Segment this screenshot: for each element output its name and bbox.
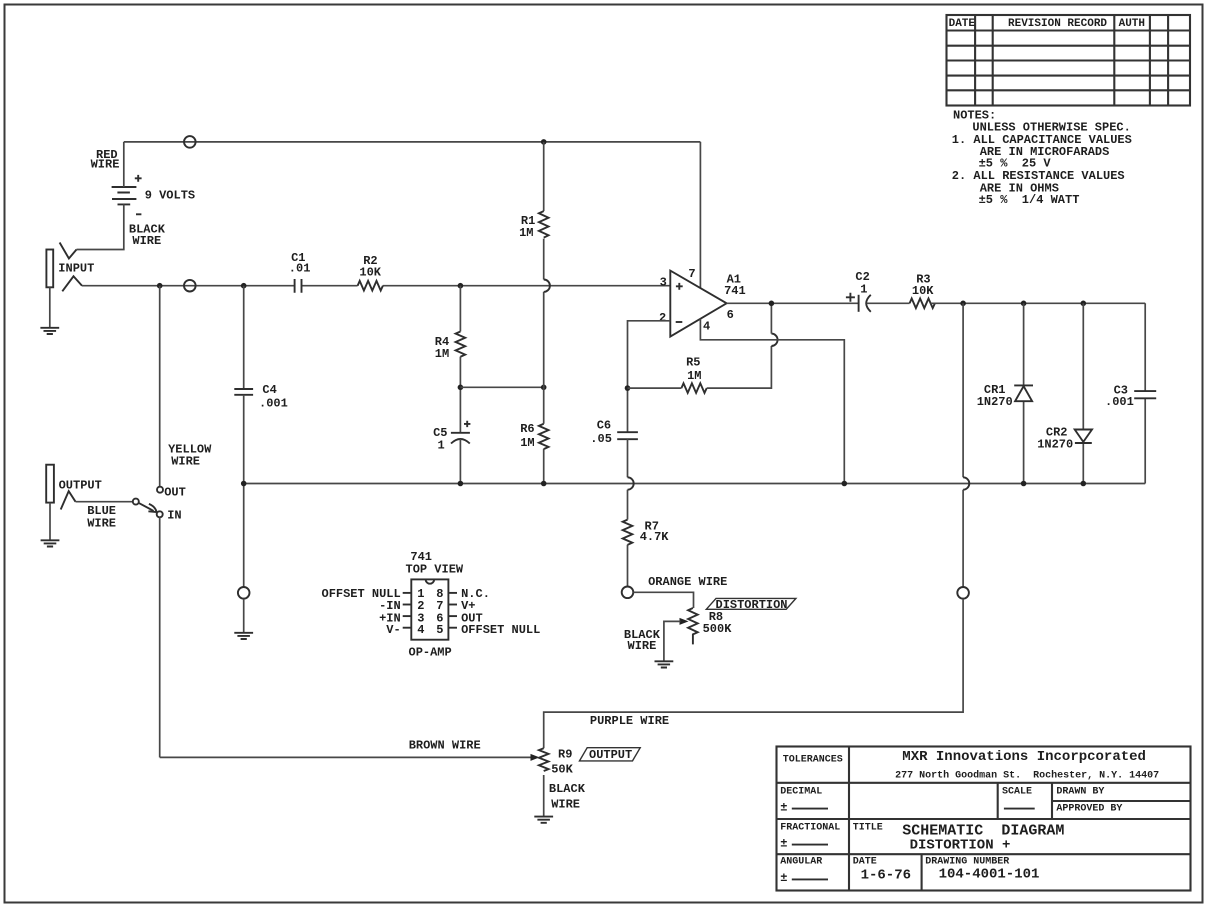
- wire pin4 to bus: [700, 319, 844, 484]
- svg-text:R9: R9: [558, 748, 572, 762]
- DIP pin labels right: [461, 587, 540, 637]
- wire +9V rail: [124, 141, 701, 143]
- DIP pin 3: [403, 615, 412, 617]
- svg-text:277 North Goodman St. Rochest: 277 North Goodman St. Rochester, N.Y. 14…: [895, 770, 1159, 782]
- svg-text:V-: V-: [386, 623, 400, 637]
- svg-text:±: ±: [780, 800, 787, 814]
- diode CR2 1N270: [1037, 425, 1092, 451]
- wire rail to R1: [543, 142, 545, 211]
- connector circle (input signal): [184, 280, 196, 292]
- R9 wiper arrowhead: [531, 754, 540, 761]
- resistor R6 1M: [520, 422, 548, 450]
- potentiometer R8 500K: [688, 608, 732, 644]
- op-amp A1 741 triangle: [670, 271, 745, 337]
- svg-text:1N270: 1N270: [977, 395, 1013, 409]
- svg-text:FRACTIONAL: FRACTIONAL: [780, 823, 840, 834]
- capacitor C5 1 (electrolytic): [433, 421, 470, 453]
- wire hop over bus: [628, 477, 634, 489]
- svg-text:OFFSET NULL: OFFSET NULL: [461, 623, 540, 637]
- wire input signal to op-amp pin3: [82, 285, 670, 287]
- DIP pin 5: [448, 627, 457, 629]
- wire purple: connector to R9 top: [544, 599, 963, 749]
- potentiometer R9 50K: [539, 748, 574, 777]
- svg-text:3: 3: [660, 276, 667, 290]
- svg-text:1M: 1M: [435, 347, 449, 361]
- wire blue: jack to switch pivot: [76, 501, 133, 503]
- node: bus left end: [241, 481, 247, 487]
- svg-text:500K: 500K: [703, 622, 733, 636]
- svg-text:INPUT: INPUT: [58, 262, 94, 276]
- wire switch IN down to brown wire: [159, 517, 161, 757]
- ground (left bus): [234, 633, 253, 639]
- switch contact OUT: [157, 487, 163, 493]
- svg-text:9 VOLTS: 9 VOLTS: [145, 189, 195, 203]
- svg-text:10K: 10K: [912, 284, 934, 298]
- wire feedback vertical to output: [770, 303, 772, 333]
- connector circle (orange wire): [622, 587, 634, 599]
- title block ANGULAR cell: [780, 857, 828, 885]
- capacitor C4 .001: [234, 383, 288, 411]
- svg-text:.01: .01: [289, 261, 311, 275]
- wire pin7 drop from rail: [699, 142, 701, 288]
- svg-text:6: 6: [727, 308, 734, 322]
- flag DISTORTION: [706, 598, 796, 612]
- svg-text:1: 1: [860, 283, 867, 297]
- connector circle (ground drop left): [238, 587, 250, 599]
- svg-text:TOLERANCES: TOLERANCES: [783, 754, 843, 765]
- node: input junction to switch: [157, 283, 163, 289]
- node: CR2 bus junction: [1081, 481, 1087, 487]
- svg-text:OP-AMP: OP-AMP: [409, 645, 452, 659]
- svg-text:1-6-76: 1-6-76: [861, 867, 911, 883]
- svg-text:WIRE: WIRE: [87, 516, 116, 530]
- svg-text:REVISION RECORD: REVISION RECORD: [1008, 18, 1107, 30]
- svg-text:R6: R6: [520, 422, 534, 436]
- svg-text:BROWN WIRE: BROWN WIRE: [409, 738, 481, 752]
- svg-text:1M: 1M: [687, 369, 701, 383]
- svg-text:DECIMAL: DECIMAL: [780, 786, 822, 797]
- title block TITLE cell: [853, 822, 1065, 853]
- node: pin4 bus junction: [842, 481, 848, 487]
- wire C5 to bus: [459, 439, 461, 484]
- node: bias junction at R4/C5: [458, 385, 464, 391]
- switch lever with arrow: [139, 503, 154, 511]
- svg-text:OUTPUT: OUTPUT: [589, 748, 632, 762]
- svg-text:1M: 1M: [519, 226, 533, 240]
- title block SCALE cell: [1002, 786, 1035, 808]
- ground (input jack): [40, 328, 59, 334]
- wire C3 branch: [1144, 303, 1146, 483]
- svg-text:4: 4: [417, 623, 424, 637]
- R8 wiper arrowhead: [680, 618, 689, 625]
- wire C4 to ground bus: [243, 395, 245, 587]
- capacitor C3 .001: [1105, 384, 1156, 410]
- svg-text:OUT: OUT: [164, 485, 186, 499]
- svg-text:WIRE: WIRE: [551, 798, 580, 812]
- svg-text:DISTORTION: DISTORTION: [716, 598, 788, 612]
- wire C4 branch top: [243, 286, 245, 389]
- wire orange: connector to R8: [633, 592, 693, 608]
- svg-text:WIRE: WIRE: [91, 157, 120, 171]
- wire hop to divider node to R6: [543, 292, 545, 424]
- svg-text:ORANGE WIRE: ORANGE WIRE: [648, 575, 727, 589]
- svg-text:104-4001-101: 104-4001-101: [939, 866, 1040, 882]
- svg-text:MXR Innovations Incorpcorated: MXR Innovations Incorpcorated: [902, 749, 1146, 765]
- DIP pin 1: [403, 592, 412, 594]
- input jack J1: [46, 243, 94, 328]
- resistor R1 1M: [519, 211, 548, 240]
- title block: [777, 747, 1191, 891]
- op-amp U1 DIP package top view: [406, 550, 464, 660]
- DIP pin 4: [403, 627, 412, 629]
- wire R5 leads: [628, 346, 772, 388]
- wire op-amp output: [727, 302, 859, 304]
- svg-text:.001: .001: [1105, 395, 1134, 409]
- diode CR1 1N270: [977, 383, 1033, 409]
- resistor R5 1M: [681, 355, 706, 393]
- bypass switch S1 pivot: [133, 499, 139, 505]
- wire red: battery + to 9V rail corner: [123, 142, 125, 187]
- output jack J2: [46, 465, 102, 541]
- svg-text:AUTH: AUTH: [1119, 18, 1145, 30]
- resistor R2 10K: [358, 254, 383, 291]
- wire R8 wiper to ground: [664, 621, 681, 661]
- DIP pin 6: [448, 615, 457, 617]
- node: CR2 branch: [1081, 301, 1087, 307]
- node: rail junction for R1: [541, 139, 547, 145]
- title block FRACTIONAL cell: [780, 823, 840, 851]
- wire hop over signal line: [544, 280, 550, 292]
- flag OUTPUT: [580, 748, 641, 763]
- battery BT1 9 volts: [112, 175, 196, 214]
- svg-text:APPROVED BY: APPROVED BY: [1056, 803, 1122, 814]
- DIP pin 8: [448, 592, 457, 594]
- svg-text:ANGULAR: ANGULAR: [780, 857, 822, 868]
- resistor R4 1M: [435, 332, 465, 362]
- wire R9 to ground: [543, 775, 545, 817]
- ground (R8 wiper): [655, 661, 674, 667]
- wire input to bypass switch OUT: [159, 286, 161, 487]
- wire hop (feedback over pin4 line): [771, 334, 777, 346]
- node: R6 bus junction: [541, 481, 547, 487]
- wire CR1 branch: [1023, 303, 1025, 483]
- svg-text:DATE: DATE: [853, 857, 877, 868]
- svg-text:±: ±: [780, 871, 787, 885]
- wire hop to connector: [962, 490, 964, 587]
- svg-text:DISTORTION +: DISTORTION +: [910, 837, 1011, 853]
- wire hop over bus (output drop): [963, 477, 969, 489]
- svg-text:.001: .001: [259, 397, 288, 411]
- switch contact IN: [157, 511, 163, 517]
- node: output jack branch: [960, 301, 966, 307]
- svg-text:IN: IN: [167, 509, 181, 523]
- ground bus rail: [244, 483, 1145, 485]
- svg-text:±5 % 1/4 WATT: ±5 % 1/4 WATT: [979, 193, 1080, 207]
- svg-text:DATE: DATE: [949, 18, 976, 30]
- connector circle (purple wire): [957, 587, 969, 599]
- svg-text:SCALE: SCALE: [1002, 786, 1032, 797]
- svg-text:4: 4: [703, 320, 710, 334]
- svg-text:WIRE: WIRE: [132, 234, 161, 248]
- svg-text:DRAWN BY: DRAWN BY: [1056, 786, 1104, 797]
- svg-text:C6: C6: [597, 418, 611, 432]
- capacitor C1 .01: [289, 251, 311, 293]
- svg-text:1N270: 1N270: [1037, 438, 1073, 452]
- wire output drop to hop: [962, 303, 964, 477]
- svg-text:±: ±: [780, 836, 787, 850]
- wire brown to R9 wiper: [160, 756, 532, 758]
- resistor R7 4.7K: [623, 520, 670, 545]
- wire R4 to C5: [459, 357, 461, 433]
- svg-text:WIRE: WIRE: [628, 639, 657, 653]
- node: C5 bus junction: [458, 481, 464, 487]
- node: R4 branch junction: [458, 283, 464, 289]
- svg-text:7: 7: [688, 267, 695, 281]
- node: CR1 branch: [1021, 301, 1027, 307]
- svg-text:741: 741: [724, 284, 746, 298]
- wire C6 to hop at bus: [627, 439, 629, 477]
- DIP pin 2: [403, 604, 412, 606]
- svg-text:OUTPUT: OUTPUT: [59, 479, 102, 493]
- wire pin2 from op-amp: [628, 321, 671, 432]
- svg-text:TOP VIEW: TOP VIEW: [406, 563, 464, 577]
- wire CR2 branch: [1082, 303, 1084, 483]
- wire output top line: [931, 302, 1145, 304]
- wire to R7: [627, 490, 629, 520]
- title block DRAWING NUMBER cell: [925, 857, 1039, 883]
- svg-text:4.7K: 4.7K: [640, 530, 670, 544]
- svg-text:TITLE: TITLE: [853, 823, 883, 834]
- wire R1 down to hop: [543, 239, 545, 280]
- connector circle (red wire): [184, 136, 196, 148]
- wire R7 to connector: [627, 545, 629, 587]
- DIP pin labels left: [322, 587, 401, 637]
- node: CR1 bus junction: [1021, 481, 1027, 487]
- revision record table: [947, 15, 1191, 106]
- node: R1/R6 divider junction: [541, 385, 547, 391]
- svg-text:5: 5: [436, 623, 443, 637]
- svg-text:BLACK: BLACK: [549, 782, 586, 796]
- wire C2 to R3: [867, 302, 910, 304]
- svg-text:50K: 50K: [551, 763, 573, 777]
- svg-text:10K: 10K: [359, 266, 381, 280]
- title block DATE cell: [853, 857, 911, 884]
- svg-text:PURPLE WIRE: PURPLE WIRE: [590, 714, 669, 728]
- node: R5 left junction: [625, 385, 631, 391]
- DIP pin 7: [448, 604, 457, 606]
- node: output/feedback junction: [769, 301, 775, 307]
- wire R4 branch: [459, 286, 461, 332]
- node: C4 branch junction: [241, 283, 247, 289]
- capacitor C6 .05: [590, 418, 638, 446]
- svg-text:WIRE: WIRE: [171, 455, 200, 469]
- svg-text:2: 2: [659, 311, 666, 325]
- title block DECIMAL cell: [780, 786, 828, 814]
- ground (R9): [534, 817, 553, 823]
- svg-text:.05: .05: [590, 432, 612, 446]
- wire circle to ground: [243, 599, 245, 633]
- ground (output jack): [41, 540, 60, 546]
- svg-text:1: 1: [438, 438, 445, 452]
- wire bias link to R1/R6 node: [460, 386, 543, 388]
- svg-text:R5: R5: [686, 355, 700, 369]
- wire black: battery - to input jack sleeve: [77, 204, 124, 249]
- svg-text:1M: 1M: [520, 436, 534, 450]
- capacitor C2 1 (electrolytic): [846, 270, 871, 312]
- notes text: [952, 109, 1132, 208]
- wire R6 to bus: [543, 449, 545, 484]
- svg-text:C4: C4: [262, 383, 276, 397]
- resistor R3 10K: [910, 273, 935, 308]
